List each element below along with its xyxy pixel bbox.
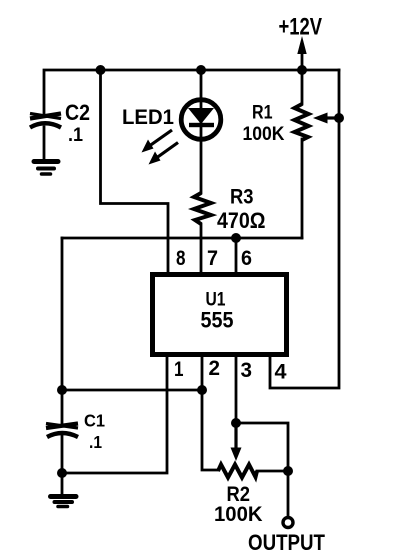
svg-text:7: 7: [207, 247, 218, 270]
wire: horizontal line y=390 (C1 top to pin 2): [62, 389, 202, 392]
wire: LED anode from rail: [200, 70, 203, 100]
svg-text:C1: C1: [84, 411, 105, 431]
svg-text:100K: 100K: [214, 502, 263, 526]
wire: C2 bottom lead to ground: [43, 127, 46, 158]
capacitor C2: [30, 114, 61, 128]
svg-text:.1: .1: [89, 432, 102, 452]
svg-text:.1: .1: [68, 124, 83, 146]
junction: pin 3 wiper node: [231, 418, 241, 428]
wire: R1 bottom down to node line: [301, 139, 304, 238]
junction: rail / LED branch: [196, 65, 206, 75]
power symbol: +12V arrow: [297, 36, 306, 70]
svg-text:3: 3: [241, 359, 253, 382]
wire: top +12V rail: [44, 70, 339, 113]
junction: rail / +12V entry: [297, 65, 307, 75]
wire: pin 1 down to C1 bottom node: [62, 352, 167, 473]
wire: wiper node right and down to R2 right end: [236, 423, 288, 471]
wire: R3 to pin 7: [200, 224, 203, 277]
svg-text:100K: 100K: [243, 123, 285, 145]
svg-text:470Ω: 470Ω: [217, 208, 266, 233]
wire: pin 6 drop: [235, 238, 238, 277]
wire: horizontal node line y=238 (R1 bottom across to left bus): [62, 237, 302, 240]
junction: pin 2 / C1 line: [197, 385, 207, 395]
potentiometer R1 (zigzag): [295, 104, 309, 140]
terminal: OUTPUT open circle: [283, 518, 293, 528]
wire: rail to R1 top: [301, 70, 304, 104]
svg-text:OUTPUT: OUTPUT: [248, 530, 325, 555]
svg-text:C2: C2: [65, 100, 90, 125]
junction: R2 right end / output node: [283, 466, 293, 476]
wire: right vertical bus (rail to pin 4): [270, 70, 339, 388]
LED1 emission arrow 2: [149, 143, 179, 165]
R1 wiper arrow: [313, 113, 339, 124]
wire: C1 top lead: [61, 390, 64, 423]
svg-text:2: 2: [209, 357, 221, 380]
capacitor C1: [46, 424, 78, 438]
wire: LED cathode to R3: [200, 139, 203, 193]
resistor R3 (zigzag): [194, 193, 211, 224]
wire: C1 node to ground: [61, 473, 64, 493]
svg-text:R3: R3: [230, 185, 254, 209]
wire: rail drop at x=99 to pin 8: [101, 70, 169, 277]
LED1 emission arrow 1: [142, 130, 173, 153]
wire: R2 right end to node: [257, 470, 288, 473]
svg-text:LED1: LED1: [122, 106, 174, 129]
junction: pin 6 node: [231, 233, 241, 243]
svg-text:+12V: +12V: [279, 14, 323, 41]
potentiometer R2 (zigzag): [218, 465, 257, 478]
IC U1 555 body: [153, 275, 287, 355]
LED LED1: [181, 100, 221, 140]
svg-text:555: 555: [201, 308, 234, 333]
junction: C1 top / left bus: [57, 385, 67, 395]
ground (C1): [51, 497, 77, 507]
svg-text:1: 1: [174, 358, 184, 381]
svg-text:6: 6: [241, 247, 252, 270]
svg-text:R1: R1: [252, 102, 273, 124]
junction: R1 wiper / right bus: [334, 113, 344, 123]
junction: C1 bottom / ground node: [57, 468, 67, 478]
wire: pin 2 down to R2 left end: [202, 352, 218, 470]
ground (C2): [34, 162, 58, 175]
wire: C1 bottom lead: [61, 436, 64, 473]
R2 wiper arrow: [231, 423, 242, 461]
wire: R2 node down to output terminal: [287, 471, 290, 517]
svg-text:8: 8: [176, 247, 186, 270]
wire: left vertical bus x=62: [61, 238, 64, 390]
junction: rail / x=99 drop: [96, 65, 106, 75]
wire: pin 3 drop to wiper node: [235, 352, 238, 423]
svg-text:4: 4: [275, 361, 287, 384]
